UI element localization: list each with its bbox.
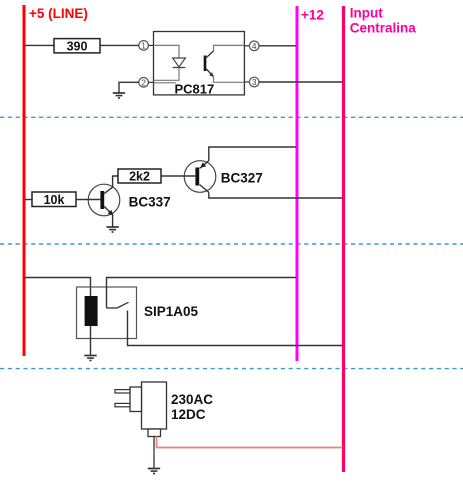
svg-text:4: 4: [252, 42, 257, 51]
wire +5 rail to resistor 390: [25, 44, 54, 46]
svg-text:BC327: BC327: [221, 171, 263, 186]
wire pin 1 to opto box: [148, 44, 153, 46]
wire adapter to ground: [153, 437, 155, 469]
pin 1: [139, 41, 149, 51]
wire 2k2 to BC327 base: [161, 175, 195, 177]
label BC337: [129, 195, 171, 210]
svg-text:2: 2: [141, 78, 146, 87]
wire resistor 390 to pin 1: [100, 44, 139, 46]
label 230AC 12DC: [171, 392, 213, 422]
LED diode inside PC817: [173, 58, 186, 68]
pin 2: [139, 78, 149, 88]
resistor R? 10k: [32, 192, 76, 207]
wire BC337 emitter to ground: [112, 215, 114, 227]
power adapter plug block: [130, 387, 142, 412]
power adapter prong 1: [115, 390, 130, 393]
wire opto box to pin 4: [244, 45, 249, 47]
ground (BC337 emitter): [106, 227, 118, 232]
photo-transistor inside PC817: [205, 51, 214, 77]
label +12: [301, 8, 324, 23]
wire pin 3 to Input Centralina rail: [259, 81, 343, 83]
wire internal emitter lead: [214, 77, 245, 83]
section separator dashed line 2: [0, 243, 463, 245]
svg-text:12DC: 12DC: [171, 407, 206, 422]
wire BC327 collector to Input Centralina rail: [209, 192, 343, 198]
wire BC337 collector to 2k2: [113, 176, 118, 187]
wire relay switch common to +12 rail: [107, 278, 297, 309]
ground (adapter): [148, 469, 160, 474]
wire pin 2 to ground: [119, 82, 139, 92]
section separator dashed line 3: [0, 368, 463, 370]
svg-text:2k2: 2k2: [129, 170, 150, 184]
wire adapter 12V output to Input Centralina rail (red): [157, 437, 343, 448]
relay coil: [85, 296, 98, 326]
svg-text:Input: Input: [350, 5, 383, 20]
label BC327: [221, 171, 263, 186]
pin 3: [249, 77, 259, 87]
power rail +12: [296, 6, 299, 361]
ground (relay coil): [84, 356, 96, 361]
section separator dashed line 1: [0, 116, 463, 118]
ground (pin 2): [113, 93, 125, 98]
power adapter prong 2: [115, 403, 130, 406]
svg-text:+12: +12: [301, 8, 324, 23]
relay K? SIP1A05 box: [77, 287, 137, 339]
power adapter output nub: [148, 429, 161, 437]
wire internal LED loop: [154, 45, 180, 80]
wire +5 rail to resistor 10k: [25, 199, 32, 201]
transistor Q? BC337: [88, 184, 120, 216]
svg-text:Centralina: Centralina: [350, 20, 417, 35]
resistor R? 2k2: [118, 169, 161, 184]
transistor Q? BC327: [184, 161, 216, 193]
wire relay coil to ground: [90, 326, 92, 355]
wire internal collector lead: [214, 45, 245, 51]
wire +5 rail to relay coil: [25, 278, 91, 297]
svg-text:230AC: 230AC: [171, 392, 213, 407]
power adapter PS? body: [142, 382, 167, 429]
svg-text:1: 1: [141, 41, 146, 50]
svg-text:10k: 10k: [44, 193, 65, 207]
net rail Input Centralina: [342, 6, 345, 472]
svg-text:+5 (LINE): +5 (LINE): [29, 6, 88, 21]
opto-coupler U? PC817 box: [154, 32, 245, 95]
relay switch contact blade: [107, 302, 129, 308]
label +5 (LINE): [29, 6, 88, 21]
wire pin 2 internal stub: [154, 82, 177, 84]
pin 4: [249, 41, 259, 51]
wire relay switch output to Input Centralina rail: [128, 311, 343, 346]
wire opto box to pin 3: [244, 81, 249, 83]
power rail +5 (LINE): [23, 5, 26, 356]
label SIP1A05: [144, 304, 199, 319]
label Input Centralina: [350, 5, 417, 35]
wire pin 2 to opto box: [148, 81, 153, 83]
wire 10k to BC337 base: [76, 199, 100, 201]
resistor R? 390: [54, 39, 100, 54]
svg-text:PC817: PC817: [175, 82, 215, 97]
svg-text:BC337: BC337: [129, 195, 171, 210]
svg-text:3: 3: [252, 78, 257, 87]
wire BC327 emitter to +12 rail: [209, 147, 296, 161]
label PC817: [175, 82, 215, 97]
svg-text:390: 390: [67, 40, 88, 54]
svg-text:SIP1A05: SIP1A05: [144, 304, 199, 319]
wire pin 4 to +12 rail: [259, 45, 296, 47]
